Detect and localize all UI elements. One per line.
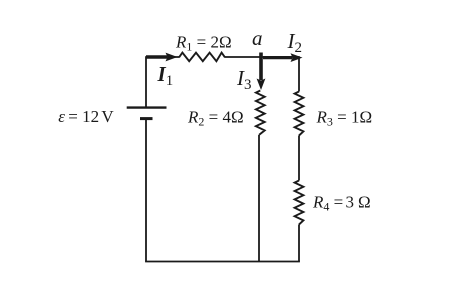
svg-text:R2 = 4Ω: R2 = 4Ω (187, 107, 244, 128)
wire: top left horizontal (battery top to R1) (146, 56, 179, 58)
current arrow I2 (top right, pointing right) (263, 53, 303, 62)
wire: top right horizontal (R1 to right corner) (225, 56, 299, 58)
svg-text:ε = 12 V: ε = 12 V (58, 107, 114, 126)
resistor R2 zigzag (256, 91, 265, 135)
wire: left vertical below battery (145, 119, 147, 262)
svg-text:R1 = 2Ω: R1 = 2Ω (175, 33, 232, 54)
resistor R3 zigzag (295, 92, 304, 136)
svg-text:R4 = 3Ω: R4 = 3Ω (312, 193, 371, 214)
resistor R1 zigzag (179, 53, 225, 62)
wire: middle branch below R2 (258, 135, 260, 262)
wire: right vertical between R3 and R4 (298, 136, 300, 181)
wire: left vertical above battery (145, 56, 147, 106)
battery EMF source: long plate (127, 106, 167, 108)
wire: right vertical below R4 (298, 225, 300, 262)
svg-text:R3 = 1Ω: R3 = 1Ω (316, 108, 373, 129)
current arrow I1 (on top-left wire) (146, 53, 178, 62)
resistor R4 zigzag (295, 181, 304, 225)
current arrow I3 (node a, pointing down) (257, 53, 266, 91)
battery EMF source: short plate (140, 117, 153, 120)
wire: bottom horizontal (145, 261, 300, 263)
wire: right vertical above R3 (298, 56, 300, 91)
svg-text:a: a (252, 26, 263, 50)
